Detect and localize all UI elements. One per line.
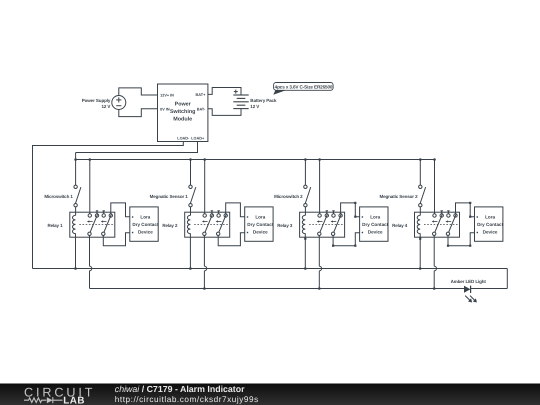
svg-text:12V+ IN: 12V+ IN bbox=[160, 94, 174, 98]
svg-text:Device: Device bbox=[368, 230, 383, 235]
svg-text:Megnatic Sensor 1: Megnatic Sensor 1 bbox=[150, 194, 189, 199]
svg-text:Device: Device bbox=[138, 230, 153, 235]
svg-text:Lora: Lora bbox=[255, 215, 265, 220]
svg-text:Relay 4: Relay 4 bbox=[392, 223, 408, 228]
svg-text:LOAD-: LOAD- bbox=[177, 136, 190, 140]
svg-text:Relay 2: Relay 2 bbox=[162, 223, 178, 228]
svg-text:0V IN: 0V IN bbox=[160, 107, 170, 111]
svg-text:Dry Contact: Dry Contact bbox=[477, 222, 504, 227]
svg-text:LOAD+: LOAD+ bbox=[191, 136, 205, 140]
svg-text:Microswitch 1: Microswitch 1 bbox=[44, 194, 73, 199]
svg-text:chiwai / C7179 - Alarm Indicat: chiwai / C7179 - Alarm Indicator bbox=[115, 384, 245, 394]
svg-text:Module: Module bbox=[173, 116, 192, 122]
svg-text:Microswitch 2: Microswitch 2 bbox=[274, 194, 303, 199]
svg-text:Power: Power bbox=[175, 101, 192, 107]
svg-text:Amber LED Light: Amber LED Light bbox=[451, 279, 487, 284]
svg-text:Power Supply: Power Supply bbox=[82, 98, 111, 103]
svg-text:Lora: Lora bbox=[370, 215, 380, 220]
svg-text:LAB: LAB bbox=[63, 396, 85, 405]
svg-text:Megnatic Sensor 2: Megnatic Sensor 2 bbox=[379, 194, 418, 199]
svg-text:Device: Device bbox=[253, 230, 268, 235]
svg-text:Relay 3: Relay 3 bbox=[277, 223, 293, 228]
svg-text:12 V: 12 V bbox=[250, 104, 259, 109]
svg-text:BAT+: BAT+ bbox=[196, 93, 207, 97]
svg-text:Device: Device bbox=[483, 230, 498, 235]
svg-text:Battery Pack: Battery Pack bbox=[250, 98, 277, 103]
svg-text:12 V: 12 V bbox=[101, 104, 110, 109]
svg-text:Dry Contact: Dry Contact bbox=[132, 222, 159, 227]
svg-text:BAT-: BAT- bbox=[197, 107, 206, 111]
svg-text:Relay 1: Relay 1 bbox=[47, 223, 63, 228]
svg-text:Dry Contact: Dry Contact bbox=[247, 222, 274, 227]
svg-text:Dry Contact: Dry Contact bbox=[362, 222, 389, 227]
svg-text:http://circuitlab.com/cksdr7xu: http://circuitlab.com/cksdr7xujy99s bbox=[115, 395, 259, 404]
svg-text:Switching: Switching bbox=[170, 109, 195, 115]
svg-text:Lora: Lora bbox=[140, 215, 150, 220]
svg-text:Lora: Lora bbox=[485, 215, 495, 220]
svg-text:4pcs x 3.6V C-Size ER26500: 4pcs x 3.6V C-Size ER26500 bbox=[275, 84, 333, 89]
